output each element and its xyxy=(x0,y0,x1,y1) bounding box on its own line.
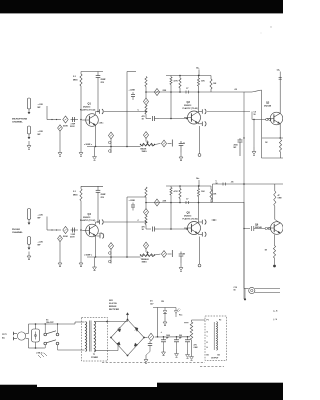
bottom bus wire xyxy=(87,256,127,258)
coupling capacitor C to tone network xyxy=(99,220,101,224)
svg-text:+ 220K: + 220K xyxy=(129,90,136,92)
svg-text:= 50MF =: = 50MF = xyxy=(84,255,93,257)
svg-text:1: 1 xyxy=(207,336,208,338)
wire jack to volume pot xyxy=(46,217,48,231)
ground on bottom bus xyxy=(94,257,96,263)
bottom bar soft edge xyxy=(157,381,283,384)
ground below bias chain xyxy=(80,259,82,264)
svg-text:2N2148: 2N2148 xyxy=(264,105,272,108)
svg-text:SILICON: SILICON xyxy=(109,303,117,305)
ground below pot xyxy=(59,259,61,264)
svg-text:2N2613: 2N2613 xyxy=(83,107,91,109)
svg-text:500K: 500K xyxy=(63,126,68,128)
speck top right xyxy=(270,26,271,27)
potentiometer R volume xyxy=(63,226,68,233)
tone network pot diamond xyxy=(143,98,148,105)
transistor Q6 xyxy=(271,222,284,235)
svg-text:10K: 10K xyxy=(201,81,205,83)
coupling cap on top wire B xyxy=(222,183,224,186)
mid wire pot diamond xyxy=(154,199,159,206)
T1 primary connection bottom xyxy=(63,349,85,351)
transistor Q5 xyxy=(188,222,201,235)
svg-text:10K: 10K xyxy=(201,191,205,193)
tone network junction xyxy=(145,202,147,204)
collector resistor chain B xyxy=(274,184,276,191)
svg-text:OHM: OHM xyxy=(194,347,199,349)
TREBLE control pot diamond xyxy=(143,242,148,249)
ground below electrolytic xyxy=(180,263,182,268)
svg-text:POWER: POWER xyxy=(91,357,98,359)
svg-text:MEG: MEG xyxy=(73,194,78,196)
emitter coupling oval xyxy=(97,235,100,237)
svg-text:25MF: 25MF xyxy=(101,79,107,81)
output stage bottom wire xyxy=(262,137,283,139)
emitter branch down to terminal xyxy=(199,237,201,265)
top bar soft edge xyxy=(0,12,283,15)
ground below zener xyxy=(164,318,166,323)
coupling capacitor input xyxy=(71,119,79,121)
svg-text:1W: 1W xyxy=(161,301,164,303)
svg-text:P2: P2 xyxy=(219,320,221,322)
T1 primary connection top xyxy=(74,322,76,324)
ground filter cap 2 xyxy=(176,349,178,354)
supply rail right xyxy=(166,185,211,187)
supply rail left xyxy=(81,71,103,73)
channel 2 (phono) xyxy=(12,177,244,271)
svg-text:= 50MF =: = 50MF = xyxy=(84,144,93,146)
bottom bus wire right segment xyxy=(127,146,141,148)
collector load resistor second stage xyxy=(198,186,200,189)
mid wire coupling component xyxy=(185,201,187,204)
bottom bus wire xyxy=(87,146,127,148)
svg-text:B2: B2 xyxy=(218,355,220,357)
plug wires xyxy=(26,333,29,335)
wire stub xyxy=(171,250,173,257)
channel 2 output stage xyxy=(211,181,283,322)
switch S1 pole upper xyxy=(44,333,47,336)
electrolytic cap to ground xyxy=(180,252,182,255)
filter resistor diamond xyxy=(148,333,154,341)
svg-text:2N2613: 2N2613 xyxy=(184,105,192,107)
ground below bleeder xyxy=(191,352,193,357)
T2 inner coil xyxy=(217,322,218,351)
ground below pot xyxy=(59,148,61,153)
second stage emitter cap xyxy=(197,123,199,124)
wire coupling cap to tone network xyxy=(104,111,146,113)
speck mid right xyxy=(261,33,262,34)
wire emitter down xyxy=(95,235,97,257)
Q6 emitter wire xyxy=(274,235,276,246)
mid horizontal wire xyxy=(146,202,244,204)
svg-text:4.7K: 4.7K xyxy=(174,190,179,193)
svg-text:RECTIFIER: RECTIFIER xyxy=(109,309,120,311)
long vertical feedback line xyxy=(126,72,128,147)
svg-text:+ 220: + 220 xyxy=(38,242,44,244)
bleeder resistor left of T2 xyxy=(191,320,193,322)
TREBLE control potentiometer xyxy=(145,249,147,252)
svg-text:+ 220: + 220 xyxy=(38,215,44,217)
rail end drop resistor xyxy=(210,76,212,80)
top AC wire xyxy=(29,323,76,325)
zener diode D1 xyxy=(164,308,166,311)
tone network resistor upper xyxy=(145,187,147,197)
second stage collector cap xyxy=(197,221,199,224)
second stage base wire xyxy=(159,118,187,120)
svg-text:25MF: 25MF xyxy=(101,194,107,196)
pilot lamp PL1 xyxy=(175,308,177,311)
electrolytic cap to ground xyxy=(180,141,182,144)
SR1 top arrow mark xyxy=(127,313,129,320)
bottom diamond resistor xyxy=(155,144,161,145)
svg-text:50: 50 xyxy=(234,290,236,292)
regulator top wire xyxy=(153,307,176,309)
output capacitor C8 xyxy=(239,138,241,140)
svg-text:50: 50 xyxy=(254,114,256,116)
Q3 emitter wire xyxy=(279,124,281,138)
tone network resistor upper xyxy=(145,77,147,87)
svg-text:2N2613: 2N2613 xyxy=(184,216,192,218)
ground below electrolytic xyxy=(180,153,182,158)
bottom black border bar middle xyxy=(36,387,159,400)
second stage dropping resistor xyxy=(179,76,181,79)
wire coupling cap to tone network xyxy=(104,221,146,223)
ground below bias xyxy=(253,147,255,152)
wire collector cap to output base xyxy=(207,111,250,113)
regulator branch up xyxy=(157,308,159,337)
output transformer T2 shield box xyxy=(205,316,227,361)
channel 1 output stage xyxy=(207,69,283,300)
SR1 AC connections xyxy=(110,321,119,323)
resistor bias R xyxy=(80,72,82,75)
ground below jack xyxy=(28,141,30,146)
plus supply stub xyxy=(198,180,200,186)
long vertical feedback line xyxy=(126,197,128,257)
svg-text:200V: 200V xyxy=(70,126,75,128)
ground on bottom bus xyxy=(94,147,96,153)
ground below diamond cap xyxy=(145,355,147,360)
resistor bias R xyxy=(80,186,82,189)
svg-text:AC: AC xyxy=(2,337,6,340)
SR1 diode bottom-right xyxy=(134,343,137,346)
potentiometer lower arm xyxy=(58,235,63,241)
wire Q3 collector to supply xyxy=(279,72,281,114)
connector output wires xyxy=(255,288,280,290)
base bias resistor to ground xyxy=(253,120,255,148)
svg-text:+ 220: + 220 xyxy=(38,131,44,133)
SR1 vertex dots xyxy=(127,319,129,321)
dash mark xyxy=(184,322,189,324)
wire collector up xyxy=(95,112,97,115)
svg-text:500K: 500K xyxy=(63,236,68,238)
svg-text:2N2148: 2N2148 xyxy=(255,226,262,229)
ground bus dashed right xyxy=(200,366,224,368)
bottom diamond resistor xyxy=(155,254,161,255)
svg-text:+ 220K: + 220K xyxy=(129,200,136,202)
top black border bar xyxy=(0,0,283,13)
svg-text:200V: 200V xyxy=(70,237,75,239)
collector load resistor second stage xyxy=(198,76,200,79)
ground below bias chain xyxy=(80,148,82,153)
long vertical to output connector xyxy=(243,92,245,299)
svg-text:1MEG: 1MEG xyxy=(142,262,148,264)
svg-text:MEG: MEG xyxy=(73,80,78,82)
divider resistor chain mid xyxy=(170,76,172,78)
svg-text:BRIDGE: BRIDGE xyxy=(109,306,117,308)
svg-text:50: 50 xyxy=(183,254,185,256)
collector load chain with capacitor xyxy=(97,186,99,190)
svg-text:1MEG: 1MEG xyxy=(142,151,148,153)
second stage emitter cap xyxy=(197,233,199,234)
feedback branch wire xyxy=(110,250,112,264)
bottom black border bar left xyxy=(0,385,37,400)
divider resistor chain mid xyxy=(170,186,172,188)
svg-text:+ 220: + 220 xyxy=(38,104,44,106)
svg-text:PLASTIC (TO-92): PLASTIC (TO-92) xyxy=(183,107,199,110)
B+ output wire xyxy=(144,337,148,339)
junction stub left edge xyxy=(213,219,215,221)
svg-text:ON-OFF: ON-OFF xyxy=(46,322,54,324)
capacitor to second stage base xyxy=(146,118,151,120)
transformer T1 core xyxy=(88,321,90,352)
wire pot to ground xyxy=(59,242,61,259)
svg-text:PLASTIC (TO-92): PLASTIC (TO-92) xyxy=(183,218,199,221)
ground filter cap 3 xyxy=(187,350,189,355)
wire mid to output stage corner xyxy=(244,91,252,93)
wire collector up xyxy=(95,222,97,225)
vertical line right xyxy=(261,90,263,158)
svg-text:CHANNEL: CHANNEL xyxy=(12,231,23,234)
svg-text:50: 50 xyxy=(216,183,218,185)
svg-text:C7: C7 xyxy=(186,199,188,201)
bridge rectifier SR1 outline xyxy=(111,320,144,356)
svg-text:OHM: OHM xyxy=(278,198,283,200)
jack J1 input xyxy=(27,98,30,109)
tone network junction xyxy=(145,91,147,93)
svg-text:2N2613: 2N2613 xyxy=(83,217,91,219)
svg-text:OUTPUT: OUTPUT xyxy=(211,358,219,360)
svg-text:CHANNEL: CHANNEL xyxy=(12,121,23,124)
rail end drop resistor xyxy=(210,186,212,190)
ground filter cap 1 xyxy=(163,348,165,353)
svg-text:22K: 22K xyxy=(163,90,167,92)
tone network resistor lower xyxy=(145,105,147,114)
potentiometer R volume xyxy=(63,116,68,123)
switch S1 pole lower xyxy=(44,342,47,345)
svg-text:22K: 22K xyxy=(163,201,167,203)
transistor Q3 xyxy=(270,112,283,125)
filter cap 1 xyxy=(163,337,165,340)
second stage base wire xyxy=(159,228,187,230)
transformer T1 secondary winding xyxy=(94,322,96,353)
base network B xyxy=(244,228,250,230)
ground bus dashed xyxy=(102,362,205,364)
supply rail right xyxy=(166,75,211,77)
coupling capacitor input xyxy=(71,229,79,231)
filter cap 2 xyxy=(176,337,178,340)
power supply section xyxy=(2,300,227,367)
jack J2 input xyxy=(27,126,30,134)
svg-text:(+ S: (+ S xyxy=(274,311,278,313)
supply rail left xyxy=(81,185,103,187)
wire stub xyxy=(171,140,173,147)
emitter branch down to terminal xyxy=(199,126,201,154)
bottom wire to edge xyxy=(262,157,284,159)
mid wire coupling component xyxy=(185,91,187,94)
jack J3 input xyxy=(27,209,30,220)
bottom black border bar right xyxy=(157,383,283,400)
feedback branch wire xyxy=(110,139,112,153)
tone network pot diamond xyxy=(143,209,148,216)
cap below filter diamond xyxy=(149,341,151,344)
svg-text:4.7K: 4.7K xyxy=(174,80,179,83)
bottom bus wire right segment xyxy=(127,256,141,258)
wire to T2 box xyxy=(192,319,206,321)
wire emitter down xyxy=(95,125,97,147)
transistor Q4 xyxy=(86,224,99,237)
output stage top wire B xyxy=(213,183,284,185)
svg-text:P1: P1 xyxy=(207,320,209,322)
filter cap 3 xyxy=(187,337,189,340)
bottom AC wire xyxy=(29,347,45,349)
ground below jack xyxy=(28,252,30,257)
second stage collector cap xyxy=(197,111,199,114)
svg-text:B1: B1 xyxy=(207,355,209,357)
mid wire pot diamond xyxy=(154,89,159,96)
emitter resistor Q3 xyxy=(279,140,281,153)
wire mid to output corner B xyxy=(211,201,213,203)
svg-text:117V: 117V xyxy=(2,334,7,336)
transformer T1 shield box xyxy=(82,318,108,362)
AC plug P1 xyxy=(17,332,25,340)
SR1 diode bottom-left xyxy=(117,342,120,345)
connector lower stub xyxy=(244,289,246,299)
jack J4 input xyxy=(27,237,30,245)
wire jack to volume pot xyxy=(46,106,48,120)
svg-text:= NE-2 =: = NE-2 = xyxy=(36,353,44,355)
svg-text:50: 50 xyxy=(183,143,185,145)
mid horizontal wire xyxy=(146,91,244,93)
wire pot to ground xyxy=(59,131,61,148)
fuse F1 xyxy=(32,329,40,342)
svg-text:C7: C7 xyxy=(186,88,188,90)
capacitor to second stage base xyxy=(146,228,151,230)
feedback pot branch diamond xyxy=(108,132,113,139)
BASS control pot diamond xyxy=(143,132,148,139)
feedback pot branch diamond xyxy=(108,243,113,250)
transistor Q2 xyxy=(188,111,201,124)
coupling capacitor C to tone network xyxy=(99,109,101,113)
svg-text:PHONO: PHONO xyxy=(12,229,20,231)
second stage dropping resistor xyxy=(179,186,181,189)
collector load chain with capacitor xyxy=(97,72,99,76)
transistor Q1 xyxy=(86,114,99,127)
channel 1 (microphone) xyxy=(12,67,244,161)
collector line tick marks xyxy=(279,76,282,78)
potentiometer lower arm xyxy=(58,125,63,131)
long vertical to connector B xyxy=(243,202,245,286)
terminal dot below Q6 xyxy=(273,265,276,268)
svg-text:PL1: PL1 xyxy=(179,315,182,317)
tone network resistor lower xyxy=(145,216,147,225)
svg-text:MICROPHONE: MICROPHONE xyxy=(12,119,28,121)
svg-text:PLASTIC (TO-92): PLASTIC (TO-92) xyxy=(80,109,96,112)
SR1 diode top-right xyxy=(135,327,138,331)
BASS control potentiometer xyxy=(145,138,147,141)
transformer T1 primary winding xyxy=(86,322,87,352)
emitter resistor Q6 xyxy=(273,246,275,259)
svg-text:PLASTIC (TO-92): PLASTIC (TO-92) xyxy=(80,219,96,222)
output connector B xyxy=(249,287,255,293)
SR1 diode top-left xyxy=(118,329,121,332)
svg-text:=1K=: =1K= xyxy=(99,123,105,125)
T1 secondary wires xyxy=(94,321,110,323)
plus supply stub xyxy=(198,70,200,76)
